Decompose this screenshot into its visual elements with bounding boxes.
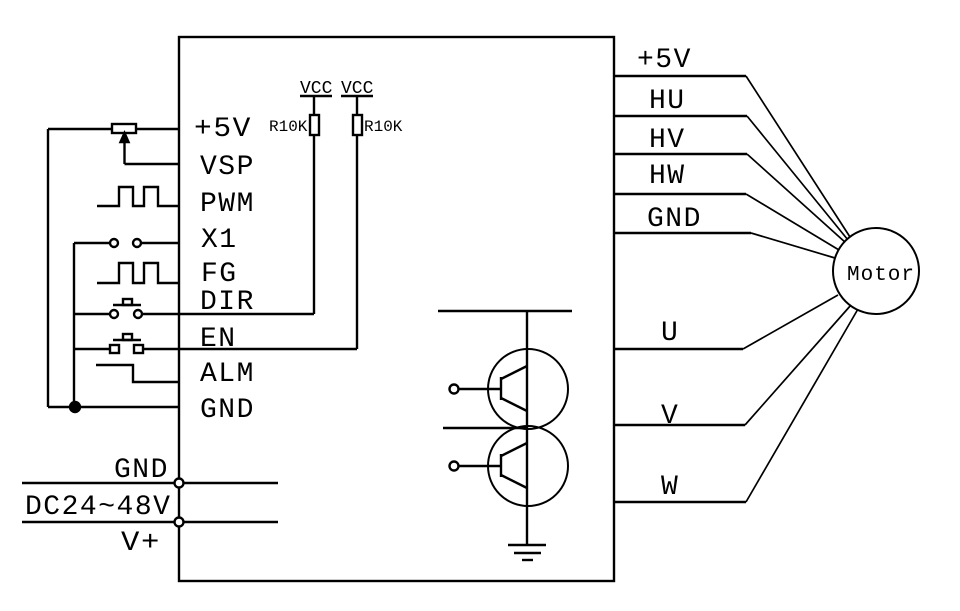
wire R2 top: [356, 96, 358, 115]
wire X1 left: [74, 242, 110, 244]
svg-text:HV: HV: [649, 125, 686, 156]
wire GND out: [614, 233, 835, 258]
svg-text:DIR: DIR: [200, 287, 255, 318]
svg-text:EN: EN: [200, 324, 237, 355]
svg-text:U: U: [661, 318, 679, 349]
pin label FG: [201, 259, 238, 290]
net label VCC 1: [300, 79, 333, 99]
ALM waveform: [96, 365, 179, 382]
svg-text:V: V: [661, 401, 679, 432]
motor M1: [833, 228, 919, 314]
svg-text:V+: V+: [121, 528, 161, 559]
pin label HV: [649, 125, 686, 156]
svg-text:GND: GND: [647, 204, 702, 235]
controller box U1: [179, 37, 614, 581]
svg-text:ALM: ALM: [200, 359, 255, 390]
pin label ALM: [200, 359, 255, 390]
FG waveform: [97, 263, 179, 283]
ground: [508, 545, 546, 560]
svg-text:VSP: VSP: [200, 152, 255, 183]
svg-text:R10K: R10K: [364, 118, 403, 136]
switch S1 contact b: [133, 239, 141, 247]
svg-text:GND: GND: [200, 395, 255, 426]
resistor R2 R10K: [353, 115, 362, 135]
resistor R1 R10K: [310, 115, 319, 135]
svg-text:+5V: +5V: [637, 45, 692, 76]
pushbutton S2 contact b: [134, 310, 142, 318]
svg-text:HU: HU: [649, 86, 686, 117]
pin label HW: [649, 161, 686, 192]
pin label +5V left: [194, 114, 252, 145]
terminal V+ pin: [175, 518, 184, 527]
wire U: [614, 295, 838, 349]
svg-text:DC24~48V: DC24~48V: [25, 492, 171, 523]
pushbutton S3 contact a: [110, 345, 119, 353]
potentiometer wiper arrow: [121, 133, 129, 164]
svg-text:R10K: R10K: [269, 118, 308, 136]
wire power V+: [22, 521, 278, 523]
pin label +5V right: [637, 45, 692, 76]
pin label X1: [201, 225, 238, 256]
pushbutton S3 bar: [113, 334, 141, 340]
PWM waveform: [97, 187, 179, 206]
net label VCC 2: [341, 79, 374, 99]
label V+: [121, 528, 161, 559]
svg-text:+5V: +5V: [194, 114, 252, 145]
svg-text:PWM: PWM: [200, 189, 255, 220]
wire pot left: [48, 128, 112, 130]
wire X1 right: [141, 242, 179, 244]
wire V: [614, 305, 851, 425]
pin label HU: [649, 86, 686, 117]
pin label V: [661, 401, 679, 432]
wire HW: [614, 194, 839, 250]
label Motor: [847, 264, 915, 287]
label GND power: [114, 455, 169, 486]
pin label W: [661, 472, 679, 503]
VCC symbol 1: [300, 95, 332, 97]
wire W: [614, 309, 858, 502]
wire R1 bottom: [313, 135, 315, 314]
wire power GND: [22, 482, 278, 484]
wire HV: [614, 154, 846, 243]
svg-text:W: W: [661, 472, 679, 503]
wire R1 top: [313, 96, 315, 115]
wire GND row: [48, 406, 179, 408]
wire DIR right: [142, 313, 314, 315]
wire bridge vertical: [526, 311, 528, 545]
svg-text:Motor: Motor: [847, 264, 915, 287]
pushbutton S3 contact b: [134, 345, 143, 353]
wire bridge top: [438, 310, 572, 312]
wire EN left: [74, 348, 110, 350]
value label R10K 2: [364, 118, 403, 136]
wire R2 bottom: [356, 135, 358, 349]
wire pot right: [136, 128, 179, 130]
potentiometer RP1: [112, 124, 136, 133]
transistor Q1 base lead: [450, 385, 502, 394]
pin label PWM: [200, 189, 255, 220]
wire HU: [614, 116, 848, 240]
VCC symbol 2: [341, 95, 373, 97]
pin label DIR: [200, 287, 255, 318]
label DC24~48V: [25, 492, 171, 523]
pin label EN: [200, 324, 237, 355]
wire bridge mid: [443, 427, 527, 429]
switch S1 contact a: [110, 239, 118, 247]
pushbutton S2 contact a: [110, 310, 118, 318]
pin label VSP: [200, 152, 255, 183]
pin label GND left: [200, 395, 255, 426]
svg-text:FG: FG: [201, 259, 238, 290]
wire VSP: [125, 163, 180, 165]
transistor Q2 base lead: [450, 462, 502, 471]
wire inner rail: [73, 243, 75, 407]
svg-text:HW: HW: [649, 161, 686, 192]
pin label GND right: [647, 204, 702, 235]
wire +5V out: [614, 76, 850, 237]
transistor Q2: [488, 426, 568, 506]
node junction dot: [70, 402, 80, 412]
transistor Q1: [488, 349, 568, 429]
svg-text:VCC: VCC: [341, 79, 374, 99]
wire DIR left: [74, 313, 110, 315]
svg-text:X1: X1: [201, 225, 238, 256]
value label R10K 1: [269, 118, 308, 136]
pushbutton S2 bar: [113, 299, 141, 305]
pin label U: [661, 318, 679, 349]
wire EN right: [143, 348, 357, 350]
wire left +5V rail: [47, 129, 49, 407]
svg-text:VCC: VCC: [300, 79, 333, 99]
terminal GND pin: [175, 479, 184, 488]
svg-text:GND: GND: [114, 455, 169, 486]
